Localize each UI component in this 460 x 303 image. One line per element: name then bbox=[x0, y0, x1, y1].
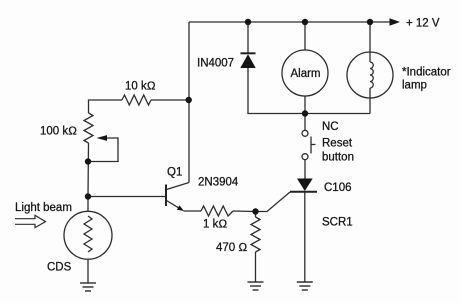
wire junction down to 470 bbox=[255, 212, 257, 218]
transistor Q1 emitter arrowhead bbox=[177, 205, 184, 211]
svg-text:lamp: lamp bbox=[402, 80, 427, 92]
svg-text:C106: C106 bbox=[324, 182, 352, 194]
ground 470 bbox=[248, 282, 264, 290]
resistor R 470 zigzag bbox=[251, 217, 260, 252]
junction dot pot wiper bbox=[85, 158, 91, 164]
wire left vertical (rail to Q1 collector branch) bbox=[188, 22, 190, 183]
svg-text:NC: NC bbox=[322, 121, 339, 133]
svg-text:CDS: CDS bbox=[47, 262, 72, 274]
ground SCR bbox=[297, 282, 313, 290]
wire diode branch from rail bbox=[247, 22, 249, 53]
wire 10k left lead and corner down to pot bbox=[89, 100, 123, 113]
wire base node to Q1 base bbox=[88, 196, 165, 198]
switch reset button top contact circle bbox=[302, 130, 308, 136]
svg-text:SCR1: SCR1 bbox=[322, 217, 353, 229]
thyristor SCR1 cathode bar bbox=[290, 191, 317, 193]
wire top +12V rail bbox=[189, 21, 393, 23]
ground CDS bbox=[80, 283, 96, 291]
svg-text:470 Ω: 470 Ω bbox=[216, 242, 247, 254]
svg-text:Light beam: Light beam bbox=[15, 202, 72, 214]
potentiometer R 100k zigzag bbox=[84, 113, 93, 143]
resistor R 10k zigzag bbox=[122, 95, 151, 105]
light beam arrow bbox=[15, 215, 46, 227]
wire emitter to 1k bbox=[184, 210, 202, 212]
svg-text:1 kΩ: 1 kΩ bbox=[203, 219, 227, 231]
junction dot 10k-collector bbox=[186, 97, 192, 103]
resistor R 1k zigzag bbox=[201, 206, 233, 216]
svg-text:*Indicator: *Indicator bbox=[402, 67, 451, 79]
wire 470 bottom to ground bbox=[255, 252, 257, 282]
transistor Q1 collector diagonal bbox=[167, 183, 190, 190]
wire lamp bottom lead bbox=[369, 88, 371, 114]
svg-text:IN4007: IN4007 bbox=[197, 58, 234, 70]
junction dot base node bbox=[85, 193, 91, 199]
svg-text:2N3904: 2N3904 bbox=[198, 177, 239, 189]
switch reset button bottom contact circle bbox=[302, 154, 308, 160]
wire node to NC contact bbox=[304, 114, 306, 131]
potentiometer wiper arrowhead bbox=[97, 135, 108, 141]
wire CDS bottom to ground bbox=[87, 259, 89, 283]
svg-text:10 kΩ: 10 kΩ bbox=[125, 81, 156, 93]
svg-text:Reset: Reset bbox=[322, 138, 353, 150]
junction dot rail-lamp bbox=[367, 19, 373, 25]
wire SCR gate bbox=[256, 192, 291, 212]
junction dot rail-diode bbox=[245, 19, 251, 25]
wire base node down to CDS bbox=[87, 197, 89, 212]
svg-text:button: button bbox=[322, 152, 354, 164]
junction dot emitter-470-gate bbox=[252, 208, 258, 214]
svg-text:Alarm: Alarm bbox=[290, 68, 320, 80]
switch reset button plunger bar bbox=[310, 137, 312, 154]
svg-text:100 kΩ: 100 kΩ bbox=[40, 126, 77, 138]
wire 10k right lead bbox=[151, 99, 189, 101]
transistor Q1 emitter diagonal bbox=[167, 201, 182, 210]
wire button to SCR anode bbox=[304, 160, 306, 179]
wire lamp top lead bbox=[369, 22, 371, 62]
svg-text:+ 12 V: + 12 V bbox=[406, 18, 440, 30]
diode D1 triangle bbox=[240, 54, 255, 68]
wire SCR cathode to ground bbox=[304, 192, 306, 282]
junction dot rail-alarm bbox=[302, 19, 308, 25]
lamp L1 indicator circle bbox=[347, 52, 393, 98]
wire pot bottom down through junction to base node bbox=[87, 143, 90, 197]
wire diode bottom down then right bbox=[248, 68, 370, 114]
junction dot NC node bbox=[302, 110, 308, 116]
wire pot wiper loop bbox=[91, 138, 118, 162]
wire 1k to junction bbox=[233, 210, 256, 213]
thyristor SCR1 triangle bbox=[297, 179, 313, 192]
transistor Q1 base bar bbox=[165, 185, 167, 207]
photocell CDS zigzag bbox=[84, 216, 92, 252]
wire alarm bottom lead bbox=[304, 96, 306, 114]
switch reset button plunger tick bbox=[311, 144, 316, 146]
wire alarm top lead bbox=[304, 22, 306, 50]
component Alarm circle bbox=[282, 50, 328, 96]
photocell CDS circle bbox=[64, 211, 112, 259]
diode D1 cathode bar bbox=[241, 52, 256, 54]
lamp coil bbox=[370, 62, 373, 88]
svg-text:Q1: Q1 bbox=[167, 167, 182, 179]
arrowhead +12V rail bbox=[390, 18, 401, 25]
